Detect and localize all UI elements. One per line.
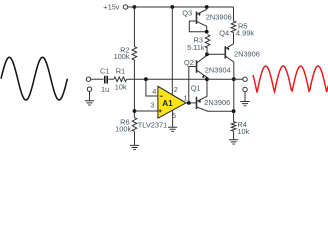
- wire Q3 base to collector (diode connection): [189, 21, 206, 32]
- input terminal: [86, 77, 90, 81]
- wire C1 to R1: [108, 78, 114, 80]
- resistor R4: [231, 122, 236, 132]
- wire terminal to rail junction: [128, 6, 135, 8]
- wire R2 to IN+ junction: [133, 60, 135, 118]
- wire terminal to ground: [89, 91, 91, 100]
- junction at rail x=134.4: [133, 5, 137, 9]
- resistor R5: [231, 21, 236, 33]
- ground (R4): [229, 140, 238, 144]
- junction emitters/feedback node: [205, 77, 209, 81]
- svg-text:Q2: Q2: [184, 58, 194, 67]
- svg-text:2N3906: 2N3906: [206, 12, 232, 21]
- svg-text:3: 3: [150, 101, 154, 110]
- transistor Q1: [197, 79, 234, 111]
- transistor Q4: [225, 44, 234, 79]
- wire rail down to R2: [133, 7, 135, 47]
- wire R6 to ground: [134, 132, 136, 146]
- ground (input): [85, 101, 94, 105]
- wire op-amp output up to Q2 base: [189, 67, 197, 103]
- wire input terminal to C1: [91, 78, 104, 80]
- svg-text:Q4: Q4: [219, 29, 229, 38]
- resistor R3: [205, 35, 210, 48]
- svg-text:C1: C1: [100, 67, 109, 76]
- wire R4 lead: [233, 111, 235, 121]
- wire output to terminal: [207, 78, 243, 80]
- svg-text:4.99k: 4.99k: [236, 29, 254, 38]
- junction IN+ node: [133, 109, 137, 113]
- resistor R6: [132, 118, 137, 132]
- svg-text:1: 1: [183, 93, 187, 102]
- wire IN+ stub pin 3: [135, 110, 158, 112]
- svg-text:R1: R1: [116, 67, 125, 76]
- svg-text:2N3906: 2N3906: [204, 98, 230, 107]
- op-amp minus marker: [160, 95, 163, 97]
- wire top rail: [134, 6, 233, 8]
- wire R3 to Q4 base node: [206, 48, 208, 54]
- transistor Q2: [197, 54, 208, 79]
- wire Q4 base stub: [207, 53, 225, 55]
- svg-text:10k: 10k: [237, 127, 249, 136]
- svg-text:+15v: +15v: [103, 3, 120, 12]
- op-amp A1 triangle: [158, 86, 186, 118]
- capacitor C1: [105, 76, 107, 84]
- svg-text:Q1: Q1: [191, 84, 201, 93]
- junction at rail x=172.3: [170, 5, 174, 9]
- svg-text:2N3906: 2N3906: [234, 49, 260, 58]
- svg-text:TLV2371: TLV2371: [138, 121, 167, 130]
- transistor Q3: [197, 10, 207, 32]
- junction Q3 collector / R3 top: [205, 30, 209, 34]
- Q4 emitter arrow: [226, 48, 229, 51]
- ground (pin 5): [168, 127, 177, 131]
- wire R5 to Q4 emitter: [233, 33, 235, 44]
- svg-text:4: 4: [152, 87, 156, 96]
- input ground terminal: [87, 87, 91, 91]
- ground (R6): [130, 145, 139, 149]
- wire R1 to summing node and feedback to emitters node: [127, 78, 207, 80]
- output terminal: [243, 77, 247, 81]
- wire R4 to ground: [233, 131, 235, 139]
- wire rail corner down to R5: [233, 7, 235, 21]
- wire Q4 collector column to R4: [233, 79, 235, 111]
- output ground terminal: [243, 87, 247, 91]
- Q2 emitter arrow: [202, 75, 205, 78]
- svg-text:2N3904: 2N3904: [205, 66, 231, 75]
- svg-text:10k: 10k: [115, 82, 127, 91]
- junction output/base node: [187, 101, 191, 105]
- ground (output): [240, 102, 249, 106]
- resistor R1: [114, 77, 127, 82]
- svg-text:1u: 1u: [101, 85, 109, 94]
- wire +15 rail down to pin 2: [171, 7, 173, 95]
- resistor R2: [132, 47, 137, 60]
- Q3 emitter arrow: [198, 13, 201, 16]
- wire terminal to ground: [244, 92, 246, 102]
- wire IN- L from junction to pin 4: [146, 79, 158, 96]
- input sine waveform: [1, 57, 67, 100]
- output rectified waveform: [253, 66, 328, 93]
- svg-text:A1: A1: [162, 99, 173, 108]
- +15v terminal: [123, 5, 127, 9]
- svg-text:5.11k: 5.11k: [187, 43, 205, 52]
- junction Q2 collector / R3 bottom / Q4 base: [205, 52, 209, 56]
- Q1 emitter arrow: [198, 100, 201, 103]
- wire pin 5 to ground: [172, 110, 174, 127]
- wire rail to Q3 emitter: [206, 7, 208, 10]
- svg-text:2: 2: [174, 85, 178, 94]
- junction output wire / collector column: [232, 77, 236, 81]
- junction R4 top / Q1 collector: [232, 109, 236, 113]
- junction input/IN- node: [144, 77, 148, 81]
- svg-text:100k: 100k: [115, 125, 131, 134]
- junction at rail x=206.7: [205, 5, 209, 9]
- svg-text:Q3: Q3: [182, 9, 192, 18]
- wire output pin 1: [186, 102, 197, 104]
- svg-text:100k: 100k: [114, 52, 130, 61]
- op-amp plus marker: [159, 109, 162, 112]
